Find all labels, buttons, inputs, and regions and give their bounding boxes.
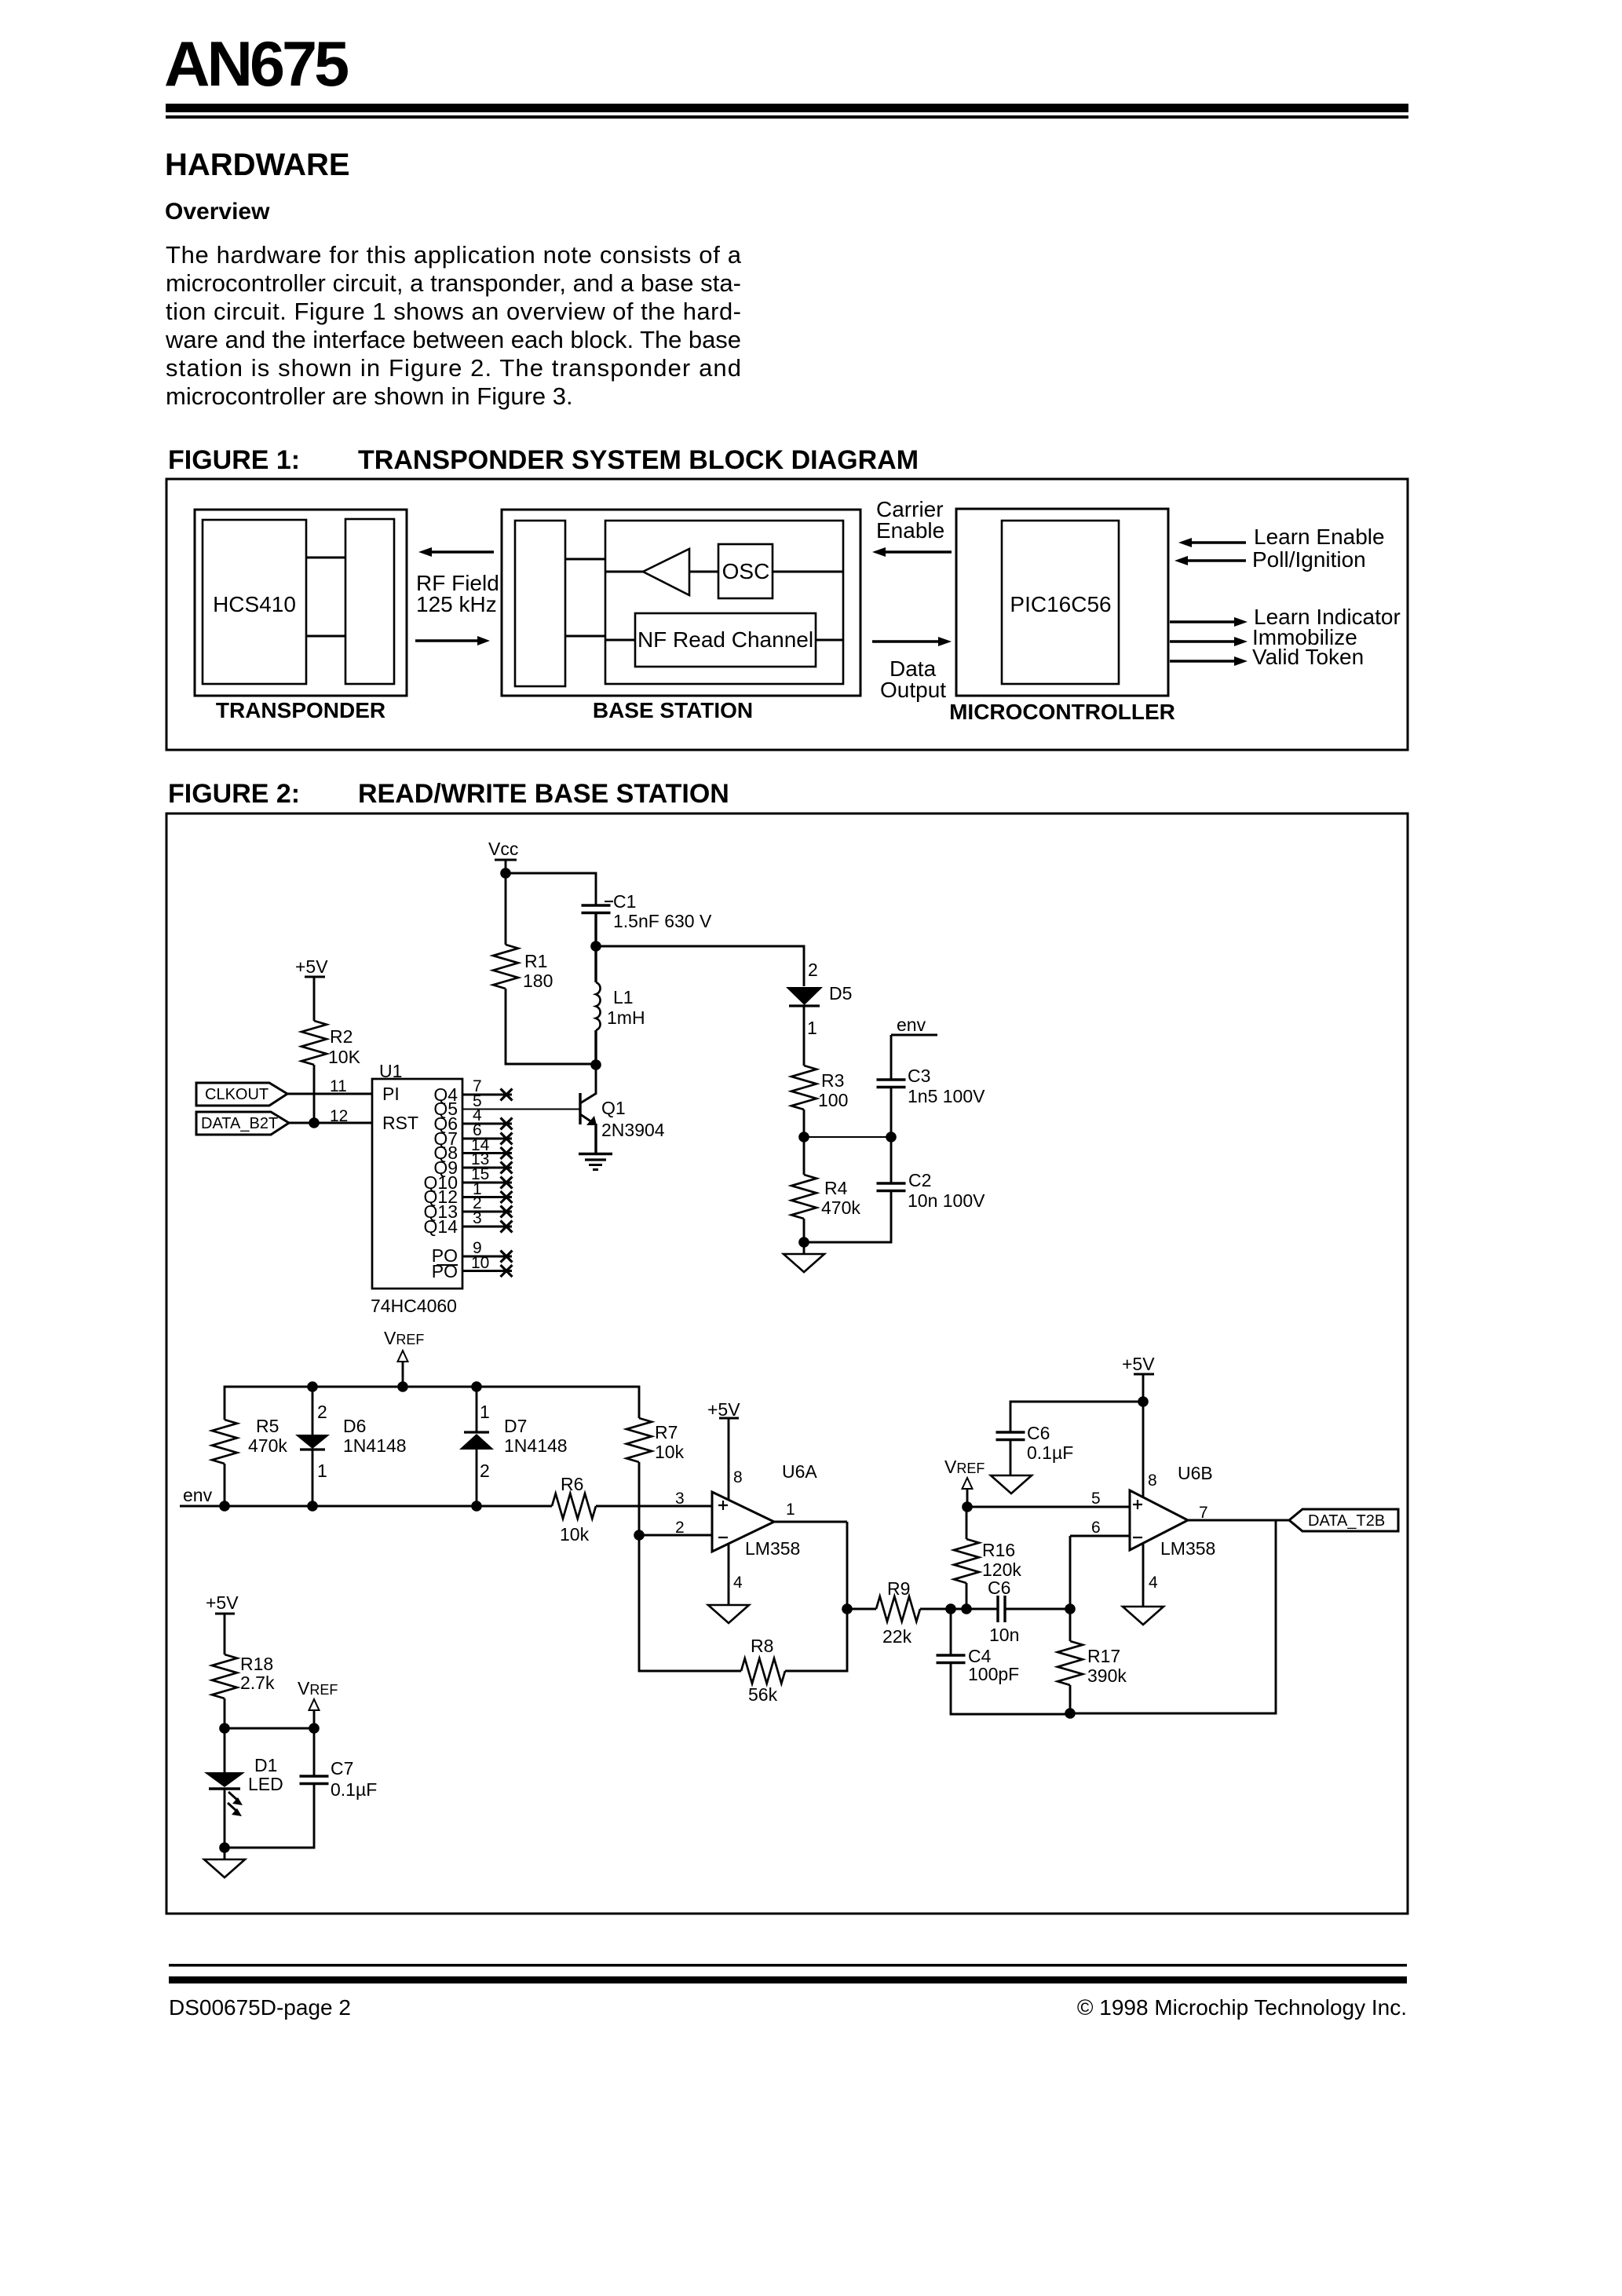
svg-text:D6: D6 [343, 1416, 366, 1436]
svg-text:U6B: U6B [1178, 1463, 1213, 1483]
header thin rule [166, 115, 1408, 119]
power VREF U6B [944, 1457, 985, 1512]
node +5V/C6 branch [1138, 1396, 1149, 1407]
svg-text:FIGURE 2:: FIGURE 2: [168, 779, 300, 809]
svg-text:C3: C3 [908, 1066, 930, 1086]
block HCS410 [203, 520, 306, 684]
svg-text:2N3904: 2N3904 [601, 1120, 665, 1140]
svg-text:R1: R1 [524, 951, 547, 971]
svg-text:microcontroller circuit, a tra: microcontroller circuit, a transponder, … [166, 269, 741, 297]
svg-text:R9: R9 [887, 1578, 910, 1599]
wire HCS410 to coil upper [306, 557, 345, 559]
svg-text:2.7k: 2.7k [240, 1673, 275, 1693]
power +5V U6B pin 8 [1122, 1354, 1157, 1498]
arrow Carrier Enable [872, 497, 952, 557]
svg-text:OSC: OSC [722, 559, 770, 583]
svg-text:C7: C7 [331, 1758, 353, 1779]
svg-text:10k: 10k [655, 1442, 685, 1462]
svg-text:10n 100V: 10n 100V [908, 1190, 985, 1211]
pin Q14 stub 3 [462, 1209, 513, 1233]
ground U6B pin 4 [1123, 1543, 1164, 1625]
svg-text:PO: PO [432, 1261, 458, 1281]
svg-text:1: 1 [786, 1501, 795, 1519]
wire DATA_B2T to RST pin 12 [289, 1107, 372, 1125]
arrow Learn Indicator [1170, 605, 1401, 629]
svg-text:CLKOUT: CLKOUT [205, 1086, 269, 1103]
op-amp U6B [1130, 1463, 1215, 1559]
svg-text:LM358: LM358 [745, 1538, 800, 1559]
node C6/R17/pin6 [1065, 1603, 1076, 1614]
svg-text:100pF: 100pF [968, 1664, 1019, 1684]
pin Q8 stub 14 [462, 1136, 513, 1159]
IC U1 74HC4060 [371, 1061, 462, 1316]
amplifier triangle [605, 549, 718, 595]
svg-text:R17: R17 [1087, 1646, 1120, 1666]
svg-text:470k: 470k [821, 1197, 860, 1218]
svg-text:4: 4 [733, 1574, 743, 1592]
wire coil to inner lower [565, 635, 605, 638]
svg-text:7: 7 [1199, 1504, 1208, 1522]
port DATA_T2B [1289, 1509, 1398, 1531]
power +5V (R18) [206, 1592, 239, 1654]
base station outer box [502, 510, 860, 696]
base station coil box [515, 521, 565, 686]
resistor R7 [627, 1418, 685, 1535]
svg-text:12: 12 [330, 1107, 348, 1125]
resistor R18 [212, 1654, 275, 1728]
svg-text:Valid Token: Valid Token [1252, 645, 1364, 669]
wire coil to inner upper [565, 558, 605, 561]
svg-text:Q1: Q1 [601, 1098, 626, 1118]
pin Q5 stub 5 wire to Q1 base [462, 1092, 580, 1110]
label RF Field 125 kHz [416, 571, 499, 616]
capacitor C6 10n [998, 1596, 1005, 1622]
svg-text:LM358: LM358 [1160, 1538, 1215, 1559]
node L1/Q1 collector [590, 1059, 601, 1070]
capacitor C6 0.1uF [996, 1423, 1074, 1475]
wire VREF to U6B pin 5 [967, 1490, 1130, 1508]
node Vcc junction [500, 868, 511, 879]
svg-text:10k: 10k [560, 1524, 590, 1545]
svg-text:READ/WRITE BASE STATION: READ/WRITE BASE STATION [358, 779, 729, 809]
figure 1 frame [166, 479, 1408, 750]
svg-text:22k: 22k [882, 1626, 912, 1647]
resistor R9 [847, 1578, 966, 1647]
wire CLKOUT to PI pin 11 [287, 1077, 372, 1095]
svg-text:1N4148: 1N4148 [343, 1435, 407, 1456]
svg-text:MICROCONTROLLER: MICROCONTROLLER [949, 700, 1175, 724]
pin Q13 stub 2 [462, 1194, 513, 1218]
ground U6A pin 4 [708, 1544, 749, 1623]
svg-text:© 1998 Microchip Technology In: © 1998 Microchip Technology Inc. [1077, 1995, 1407, 2020]
svg-text:R16: R16 [982, 1540, 1015, 1560]
header thick rule [166, 104, 1408, 112]
pin Q12 stub 1 [462, 1180, 513, 1203]
wire Vcc to C1 [506, 873, 596, 905]
power VREF rail symbol [384, 1328, 424, 1387]
resistor R8 feedback [639, 1535, 847, 1705]
svg-text:180: 180 [523, 971, 553, 991]
svg-text:Learn Enable: Learn Enable [1254, 525, 1385, 549]
resistor R6 [552, 1474, 596, 1545]
svg-text:HCS410: HCS410 [213, 592, 296, 616]
wire +5V to C6 [1010, 1402, 1143, 1432]
node D1/C7 ground [219, 1842, 230, 1853]
svg-text:1: 1 [317, 1461, 327, 1481]
svg-text:tion circuit. Figure 1 shows a: tion circuit. Figure 1 shows an overview… [166, 298, 741, 325]
svg-text:2: 2 [675, 1519, 685, 1537]
footer thick rule [169, 1976, 1407, 1983]
inductor L1 [596, 946, 645, 1065]
wire feedback to output [1070, 1520, 1276, 1713]
wire pin 6 [1070, 1519, 1130, 1609]
svg-text:11: 11 [330, 1077, 347, 1095]
wire VREF rail [225, 1387, 639, 1420]
svg-text:R4: R4 [824, 1178, 848, 1198]
svg-text:TRANSPONDER: TRANSPONDER [216, 698, 385, 722]
svg-text:LED: LED [248, 1774, 283, 1794]
LED D1 [204, 1728, 283, 1848]
svg-text:470k: 470k [248, 1435, 287, 1456]
svg-text:2: 2 [808, 960, 818, 980]
svg-text:1N4148: 1N4148 [504, 1435, 568, 1456]
arrow Valid Token [1170, 645, 1364, 669]
svg-text:5: 5 [1091, 1490, 1101, 1508]
node R4/C2 ground [798, 1237, 809, 1248]
ground Q1 emitter [579, 1154, 612, 1170]
svg-text:1: 1 [480, 1402, 490, 1422]
node VREF arrow junction [397, 1381, 408, 1392]
node R17/C4/feedback [1065, 1708, 1076, 1719]
body paragraph [165, 241, 742, 410]
pin Q9 stub 13 [462, 1150, 513, 1174]
svg-text:3: 3 [675, 1490, 685, 1508]
wire U6B output pin 7 [1188, 1504, 1289, 1522]
power +5V U6A pin 8 [707, 1399, 743, 1500]
resistor R1 [493, 873, 591, 1064]
microcontroller outer box [956, 509, 1168, 696]
footer thin rule [169, 1964, 1407, 1967]
svg-text:1n5 100V: 1n5 100V [908, 1086, 985, 1106]
resistor R16 [954, 1507, 1021, 1609]
svg-text:+5V: +5V [206, 1592, 239, 1613]
svg-text:10: 10 [471, 1254, 489, 1272]
capacitor C7 [225, 1728, 377, 1848]
svg-text:ware and the interface between: ware and the interface between each bloc… [165, 326, 741, 353]
caption BASE STATION [593, 698, 753, 722]
svg-text:D7: D7 [504, 1416, 527, 1436]
svg-text:D1: D1 [254, 1755, 277, 1775]
svg-text:microcontroller are shown in F: microcontroller are shown in Figure 3. [166, 382, 573, 410]
op-amp U6A [712, 1461, 817, 1559]
wire env line [180, 1485, 552, 1512]
svg-text:R18: R18 [240, 1654, 273, 1674]
svg-text:R8: R8 [751, 1636, 773, 1656]
svg-text:Output: Output [880, 678, 946, 702]
node U6A output [842, 1603, 853, 1614]
svg-text:3: 3 [473, 1209, 482, 1227]
svg-text:NF Read Channel: NF Read Channel [637, 627, 813, 652]
svg-text:L1: L1 [613, 987, 634, 1007]
node R3/R4 env [798, 1132, 897, 1143]
svg-text:1: 1 [807, 1018, 817, 1038]
arrow RF field to base station [415, 636, 490, 645]
svg-text:RST: RST [382, 1113, 418, 1133]
node R16 branch [961, 1603, 972, 1614]
svg-text:DATA_B2T: DATA_B2T [201, 1115, 278, 1132]
resistor R4 [791, 1137, 860, 1242]
node R2/RST [309, 1117, 320, 1128]
svg-text:+5V: +5V [295, 956, 328, 977]
ground D1 [204, 1848, 245, 1877]
svg-text:R7: R7 [655, 1422, 678, 1442]
resistor R5 [212, 1416, 287, 1506]
capacitor C4 [937, 1609, 1069, 1714]
svg-text:R6: R6 [561, 1474, 583, 1494]
diode D6 1N4148 [295, 1381, 407, 1506]
resistor R2 [301, 1021, 361, 1123]
pin Q6 stub 4 [462, 1106, 513, 1130]
svg-text:1mH: 1mH [607, 1007, 645, 1028]
svg-text:Overview: Overview [165, 199, 270, 225]
transistor Q1 2N3904 [580, 1065, 665, 1153]
svg-text:100: 100 [818, 1090, 848, 1110]
svg-text:390k: 390k [1087, 1665, 1127, 1686]
block PIC16C56 [1002, 521, 1119, 684]
capacitor C1 [582, 891, 712, 931]
svg-text:TRANSPONDER SYSTEM BLOCK DIAGR: TRANSPONDER SYSTEM BLOCK DIAGRAM [358, 445, 919, 475]
svg-text:Vcc: Vcc [488, 839, 518, 859]
svg-text:HARDWARE: HARDWARE [165, 148, 350, 182]
svg-text:D5: D5 [829, 983, 852, 1004]
wire R6 to U6A pin 3 [596, 1490, 712, 1508]
capacitor C2 [804, 1137, 985, 1242]
svg-text:10K: 10K [328, 1047, 361, 1067]
ground R4/C2 [784, 1242, 824, 1272]
svg-text:125 kHz: 125 kHz [416, 592, 497, 616]
block OSC [718, 544, 843, 598]
svg-text:Enable: Enable [876, 518, 944, 543]
svg-text:10n: 10n [989, 1625, 1019, 1645]
arrow Data Output [872, 637, 952, 702]
wire pin 2 [639, 1519, 712, 1537]
resistor R3 [791, 1066, 848, 1137]
diode D7 1N4148 [459, 1381, 568, 1506]
svg-text:DATA_T2B: DATA_T2B [1308, 1512, 1385, 1530]
svg-text:AN675: AN675 [164, 29, 348, 100]
svg-text:The hardware for this applicat: The hardware for this application note c… [166, 241, 742, 269]
svg-text:8: 8 [1148, 1472, 1157, 1490]
resistor R17 [1058, 1609, 1127, 1713]
node R18/D1/C7 [219, 1723, 320, 1734]
caption MICROCONTROLLER [949, 700, 1175, 724]
svg-text:C6: C6 [1027, 1423, 1050, 1443]
svg-text:station is shown in Figure 2.: station is shown in Figure 2. The transp… [166, 354, 741, 382]
svg-text:74HC4060: 74HC4060 [371, 1296, 457, 1316]
port DATA_B2T [196, 1112, 289, 1135]
svg-text:+5V: +5V [707, 1399, 740, 1420]
svg-text:4: 4 [1149, 1574, 1158, 1592]
svg-text:U6A: U6A [782, 1461, 817, 1482]
svg-text:PI: PI [382, 1084, 400, 1104]
svg-text:DS00675D-page 2: DS00675D-page 2 [169, 1995, 351, 2020]
arrow Immobilize [1170, 625, 1357, 649]
wire C1 to node [594, 913, 597, 947]
svg-text:R2: R2 [330, 1026, 353, 1047]
svg-text:6: 6 [1091, 1519, 1101, 1537]
power VREF (C7) [298, 1678, 338, 1728]
svg-text:8: 8 [733, 1468, 743, 1486]
node R7/R8 inverting [634, 1530, 645, 1541]
arrow RF field to transponder [418, 547, 494, 557]
node C4 branch [945, 1603, 956, 1614]
capacitor C3 [877, 1066, 986, 1137]
power Vcc [488, 839, 518, 873]
svg-text:2: 2 [317, 1402, 327, 1422]
svg-text:1.5nF 630 V: 1.5nF 630 V [613, 911, 712, 931]
node env label [891, 1015, 937, 1080]
pin Q7 stub 6 [462, 1121, 513, 1145]
svg-text:0.1µF: 0.1µF [1027, 1442, 1073, 1463]
svg-text:C1: C1 [613, 891, 636, 912]
svg-text:R3: R3 [821, 1070, 844, 1091]
arrow Learn Enable [1178, 525, 1385, 549]
block NF Read Channel [605, 613, 843, 667]
svg-text:+5V: +5V [1122, 1354, 1155, 1374]
wire node to D5 [596, 946, 804, 986]
svg-text:U1: U1 [379, 1061, 402, 1081]
svg-text:env: env [183, 1485, 213, 1505]
svg-text:0.1µF: 0.1µF [331, 1779, 377, 1800]
ground C6 [991, 1475, 1032, 1493]
svg-text:FIGURE 1:: FIGURE 1: [168, 445, 300, 475]
svg-text:env: env [897, 1015, 926, 1035]
svg-text:Poll/Ignition: Poll/Ignition [1252, 547, 1366, 572]
transponder outer box [195, 510, 407, 696]
arrow Poll/Ignition [1174, 547, 1366, 572]
svg-text:PIC16C56: PIC16C56 [1010, 592, 1111, 616]
svg-text:56k: 56k [748, 1684, 778, 1705]
figure 2 frame [166, 813, 1408, 1914]
svg-text:BASE STATION: BASE STATION [593, 698, 753, 722]
pin PO-bar stub 10 [462, 1254, 513, 1277]
port CLKOUT [196, 1083, 287, 1106]
transponder coil box [345, 519, 394, 684]
pin PO stub 9 [462, 1239, 513, 1263]
svg-text:C6: C6 [988, 1578, 1010, 1598]
svg-text:Q14: Q14 [424, 1216, 458, 1237]
base station inner box [605, 521, 843, 684]
pin Q10 stub 15 [462, 1165, 513, 1189]
caption TRANSPONDER [216, 698, 385, 722]
svg-text:2: 2 [480, 1461, 490, 1481]
svg-text:R5: R5 [256, 1416, 279, 1436]
power +5V (R2) [295, 956, 328, 1021]
pin Q4 stub 7 [462, 1077, 513, 1101]
svg-text:C2: C2 [908, 1170, 931, 1190]
capacitor C6 10n wires and labels [966, 1578, 1070, 1645]
wire U6A output pin 1 [774, 1501, 847, 1609]
wire HCS410 to coil lower [306, 635, 345, 638]
diode D5 [786, 960, 852, 1066]
node C1/L1/D5 [590, 941, 601, 952]
